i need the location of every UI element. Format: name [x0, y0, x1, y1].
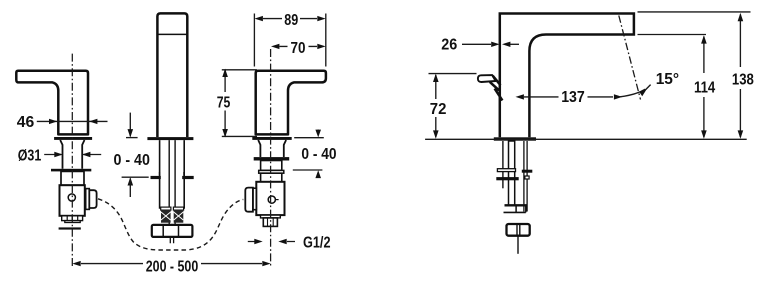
left handle screw circle — [68, 194, 75, 201]
svg-text:26: 26 — [441, 36, 457, 53]
middle spout flange — [147, 137, 193, 140]
dimension 0-40 right — [293, 130, 337, 179]
left handle taper neck — [60, 140, 84, 169]
left handle base flange — [54, 137, 92, 140]
right handle screw circle — [268, 196, 278, 203]
dimension 138 — [732, 13, 754, 139]
dimension 75 — [217, 69, 257, 138]
dimension Ø31 text — [18, 147, 42, 164]
svg-text:0 - 40: 0 - 40 — [301, 146, 336, 163]
middle inner pipe — [169, 140, 175, 225]
countertop line — [425, 138, 747, 140]
side view under-counter left stud — [502, 141, 504, 188]
dimension 26 — [441, 36, 519, 53]
left handle valve neck — [61, 171, 84, 185]
right handle taper neck — [258, 140, 286, 157]
side view cartridge rod — [509, 141, 515, 206]
dimension 0-40 middle — [113, 113, 150, 197]
left handle centerline — [71, 54, 73, 267]
left handle flange2 — [51, 169, 91, 172]
left handle thread band — [62, 216, 83, 223]
svg-text:137: 137 — [561, 89, 585, 106]
side view lever — [478, 75, 503, 100]
left handle lever — [16, 71, 88, 135]
side view hex nut — [507, 224, 530, 236]
dimension 200-500 — [72, 259, 270, 276]
right handle bottom step — [261, 215, 281, 218]
middle shank outer tubes — [160, 140, 185, 209]
dimension 89 — [254, 12, 325, 67]
middle pipe below nut — [170, 237, 173, 243]
svg-text:G1/2: G1/2 — [303, 235, 331, 252]
spout underside extension line — [638, 34, 707, 36]
svg-text:70: 70 — [291, 40, 306, 57]
left handle valve block — [60, 185, 85, 216]
svg-text:200 - 500: 200 - 500 — [146, 259, 199, 276]
right handle valve block — [256, 182, 284, 215]
svg-text:15°: 15° — [656, 71, 679, 88]
svg-text:114: 114 — [694, 80, 715, 97]
text 15 degrees — [656, 71, 679, 88]
left handle bottom washer bar — [59, 227, 81, 229]
left handle side outlet — [86, 189, 97, 210]
side view faucet outline — [500, 14, 634, 138]
side view elbow fitting — [504, 205, 527, 212]
right handle flange2 — [254, 157, 290, 160]
side view pipe below nut — [517, 236, 519, 254]
middle spout body — [157, 13, 187, 137]
side view right bracket — [522, 170, 533, 179]
svg-text:46: 46 — [17, 114, 35, 131]
dimension 137 — [516, 85, 651, 107]
right handle step ring — [259, 170, 284, 173]
dimension G1/2 — [248, 235, 331, 252]
dimension Ø31 lines — [44, 152, 101, 157]
right handle lever — [256, 71, 326, 135]
dimension 46 text — [17, 114, 35, 131]
right handle centerline — [270, 49, 272, 267]
middle mounting nut — [152, 225, 193, 237]
middle mounting tabs — [151, 172, 194, 179]
side view right pipe — [524, 141, 527, 212]
right handle base flange — [252, 137, 291, 140]
dimension 46 line — [37, 119, 108, 124]
hose dashed curve — [98, 199, 243, 250]
right handle neck upper — [261, 161, 282, 171]
svg-text:75: 75 — [217, 95, 231, 112]
side view left bracket — [496, 169, 518, 181]
side view base flange — [494, 137, 536, 140]
svg-text:Ø31: Ø31 — [18, 147, 42, 164]
right handle side outlet — [245, 188, 256, 212]
svg-text:72: 72 — [430, 101, 447, 118]
svg-text:138: 138 — [732, 71, 754, 88]
dimension 70 — [271, 40, 326, 57]
top extension line — [638, 11, 751, 13]
svg-text:0 - 40: 0 - 40 — [113, 152, 150, 169]
dimension 114 — [694, 35, 715, 139]
right handle neck lower — [261, 173, 282, 182]
svg-text:89: 89 — [284, 12, 298, 29]
dimension 72 — [429, 74, 477, 139]
right handle thread tail — [263, 218, 277, 227]
spout angle centerline 15 degrees — [619, 16, 641, 100]
middle stud bolts — [161, 207, 184, 223]
